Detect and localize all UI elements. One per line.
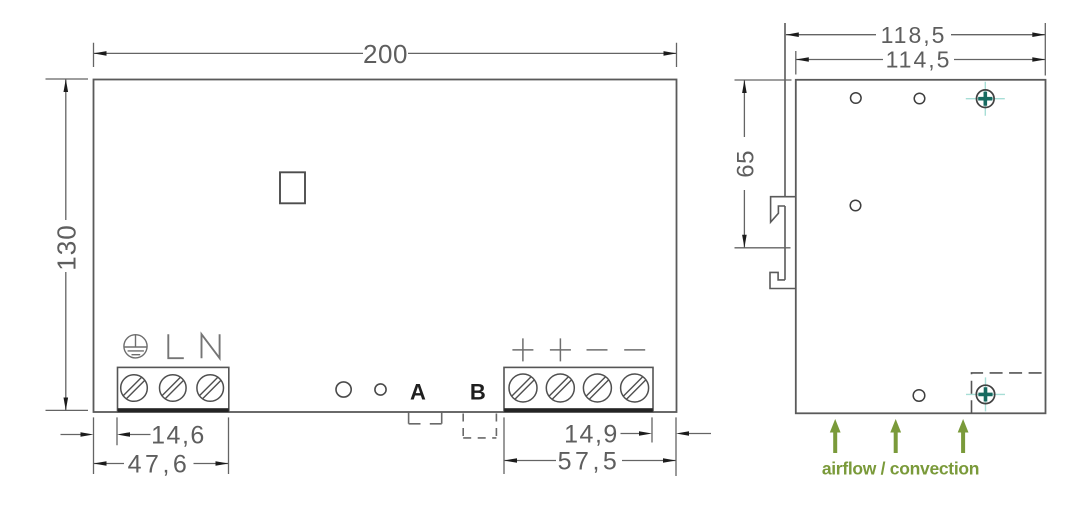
side view: body outline <box>796 80 1046 414</box>
label + (2) <box>550 338 571 361</box>
dim 130: arrowheads <box>64 79 69 92</box>
DIN clip lower <box>770 272 796 288</box>
input terminal block: dark base bar <box>118 408 229 412</box>
dim 118,5: dimension line <box>786 34 1046 36</box>
dim 14,9: dimension lines (arrows outside) <box>621 433 712 435</box>
svg-text:65: 65 <box>733 150 760 178</box>
airflow arrow 2 <box>890 419 901 453</box>
vent hole top 2 <box>914 93 925 104</box>
dim 65: dimension line <box>743 80 745 248</box>
dim 114,5: dimension line <box>796 59 1046 61</box>
output terminal block: dark base bar <box>504 408 653 412</box>
dim 114,5: extension line left <box>795 51 797 75</box>
svg-text:A: A <box>410 380 426 405</box>
svg-text:B: B <box>470 380 486 405</box>
vent hole middle <box>850 200 861 211</box>
front view: inner square cutout <box>280 172 305 203</box>
input terminal screw 2 (L) <box>160 375 187 402</box>
svg-text:57,5: 57,5 <box>558 448 621 476</box>
dim 14,6: dimension lines (arrows outside) <box>61 434 151 436</box>
cutout B (dashed, below bottom edge) <box>463 414 496 438</box>
dim 57,5: dimension line <box>504 460 676 462</box>
dim 47,6: dimension line <box>94 463 229 465</box>
dim 130: extension lines <box>46 79 89 410</box>
dim 200: dimension line <box>94 52 677 54</box>
indicator hole small <box>375 384 386 395</box>
cutout A (below bottom edge) <box>409 413 442 424</box>
dim 57,5: extension line <box>503 417 505 474</box>
input terminal block <box>118 367 229 412</box>
side view: DIN-rail mounting plate line <box>784 23 786 280</box>
DIN clip upper <box>771 197 796 222</box>
dim 200: arrowheads <box>94 51 107 56</box>
svg-text:14,6: 14,6 <box>151 422 206 450</box>
output terminal screw 4 (-) <box>621 374 649 402</box>
label - (2) <box>624 349 645 351</box>
mounting screw top (teal cross) <box>966 82 1005 116</box>
input terminal screw 3 (N) <box>197 375 224 402</box>
svg-text:130: 130 <box>51 224 81 270</box>
label + (1) <box>512 338 533 361</box>
vent hole bottom <box>913 390 925 402</box>
indicator hole large <box>336 382 351 397</box>
label N <box>202 334 220 358</box>
dim 47,6: extension line <box>228 417 230 474</box>
airflow arrow 1 <box>830 419 841 453</box>
input terminal screw 1 (PE) <box>121 375 148 402</box>
vent hole top 1 <box>851 93 862 104</box>
svg-text:118,5: 118,5 <box>881 22 947 48</box>
output terminal screw 3 (-) <box>583 374 611 402</box>
dim 130: dimension line <box>65 79 67 411</box>
front view: body outline <box>94 80 677 413</box>
svg-text:200: 200 <box>363 39 408 69</box>
svg-text:14,9: 14,9 <box>564 421 619 449</box>
dim 200: extension lines <box>94 43 677 67</box>
output terminal screw 2 (+) <box>546 374 574 402</box>
svg-text:114,5: 114,5 <box>886 47 952 73</box>
output terminal block <box>504 367 653 412</box>
output terminal screw 1 (+) <box>509 374 537 402</box>
dim 118,5: extension line right <box>1044 23 1046 76</box>
protective-earth symbol <box>124 335 147 358</box>
label - (1) <box>587 349 608 351</box>
label L <box>168 334 184 358</box>
svg-text:47,6: 47,6 <box>128 451 191 479</box>
dim 14,6: extension lines <box>94 417 118 474</box>
dashed cutout bottom-right of side view <box>972 373 1046 413</box>
dim 14,9: extension lines <box>652 417 676 476</box>
airflow arrow 3 <box>958 419 969 453</box>
mounting screw bottom (teal cross) <box>966 377 1005 411</box>
svg-text:airflow / convection: airflow / convection <box>822 459 979 479</box>
dim 65: extension lines <box>735 80 792 248</box>
